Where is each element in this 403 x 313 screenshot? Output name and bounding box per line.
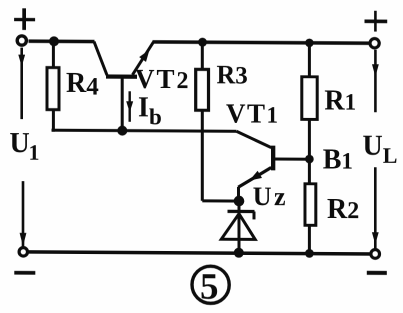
svg-text:L: L bbox=[383, 143, 398, 168]
svg-text:U: U bbox=[363, 131, 383, 162]
svg-text:U: U bbox=[10, 128, 30, 159]
svg-text:1: 1 bbox=[29, 140, 40, 165]
svg-text:I: I bbox=[138, 92, 149, 123]
svg-text:5: 5 bbox=[200, 267, 218, 308]
svg-text:b: b bbox=[149, 104, 162, 129]
svg-text:R4: R4 bbox=[66, 68, 99, 101]
svg-text:R3: R3 bbox=[217, 60, 248, 90]
svg-text:z: z bbox=[274, 182, 286, 211]
svg-text:B1: B1 bbox=[323, 145, 353, 176]
svg-text:VT1: VT1 bbox=[226, 98, 280, 128]
svg-text:VT2: VT2 bbox=[135, 64, 191, 94]
svg-text:U: U bbox=[253, 182, 272, 211]
svg-text:R2: R2 bbox=[327, 194, 359, 225]
svg-text:R1: R1 bbox=[324, 85, 356, 116]
